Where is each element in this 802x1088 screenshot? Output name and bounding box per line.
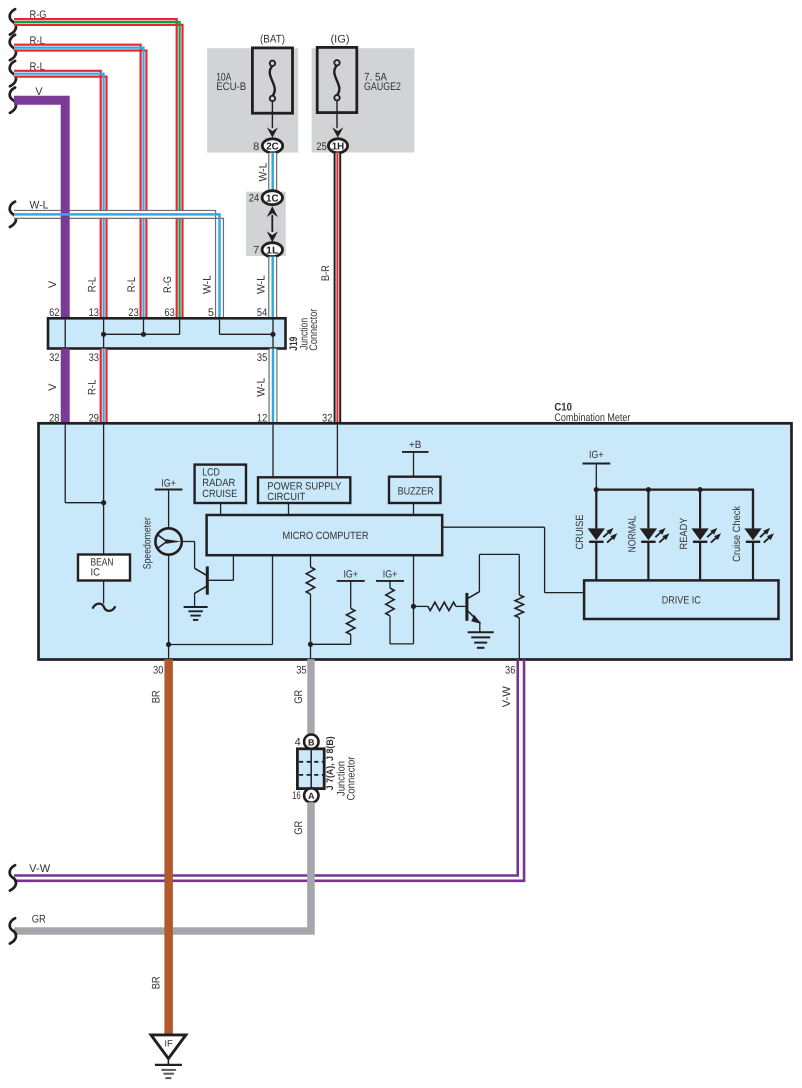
- wire R2 to pin35 node: [311, 635, 351, 645]
- wire W-L from J19 pin 35 to C10 pin 12: [269, 349, 277, 424]
- resistor R1: [306, 567, 314, 594]
- wire W-L white/blue horizontal from break, drops at x219.5 to J19 pin 5 (white body): [10, 200, 224, 319]
- svg-text:GR: GR: [32, 914, 46, 926]
- IG+ pullup B: [376, 569, 404, 588]
- svg-text:1L: 1L: [266, 245, 279, 256]
- POWER SUPPLY CIRCUIT box: [258, 477, 350, 503]
- svg-text:J 7(A), J 8(B): J 7(A), J 8(B): [325, 736, 336, 790]
- wire V from J19 pin 32 to C10 pin 28: [61, 349, 70, 424]
- wire R5 to pin 36: [518, 618, 520, 658]
- svg-text:R-L: R-L: [86, 277, 98, 293]
- BUZZER box: [389, 477, 441, 503]
- svg-text:R-L: R-L: [86, 379, 98, 395]
- wire Q2 collector to resistor R5 top: [479, 553, 519, 555]
- svg-text:IG+: IG+: [343, 569, 358, 581]
- wire fuse output to connector 2C with arrow: [267, 101, 278, 137]
- label C10 Combination Meter: [554, 401, 630, 424]
- wire LCD box to micro computer: [220, 503, 222, 515]
- transistor Q1 (speedometer driver): [182, 542, 233, 608]
- ground IF symbol: [151, 1035, 186, 1065]
- wire labels rotated above J19: V R-L R-L R-G W-L W-L: [47, 275, 268, 294]
- svg-text:2C: 2C: [266, 141, 279, 152]
- wire GR gray from pin 35 to junction connector B: [307, 659, 314, 735]
- label GR horizontal: [32, 914, 46, 926]
- J19 internal wire V pass-through: [64, 320, 66, 348]
- svg-text:7: 7: [253, 245, 259, 257]
- C10 pin numbers below box: 30 35 36: [153, 664, 515, 676]
- svg-text:(BAT): (BAT): [260, 34, 285, 46]
- svg-text:W-L: W-L: [30, 200, 49, 212]
- junction connector J7(A)/J8(B) box: [297, 749, 324, 789]
- svg-text:GR: GR: [293, 821, 305, 835]
- wire labels rotated below J19: V R-L W-L: [47, 378, 268, 397]
- svg-text:33: 33: [89, 352, 99, 364]
- J19 internal bus group 2 (pins 5,54 to 35): [220, 320, 276, 348]
- label V-W rotated: [501, 686, 513, 708]
- wire pin30 node to micro computer: [169, 555, 273, 645]
- J19 pin numbers below: 32 33 35: [49, 352, 267, 364]
- label W-L rotated beside wire: [257, 163, 269, 182]
- svg-text:CRUISE: CRUISE: [202, 488, 237, 500]
- label BR rotated upper: [151, 690, 163, 703]
- fuse rating label 7.5A GAUGE2: [364, 72, 401, 93]
- label GR rotated upper: [293, 690, 305, 704]
- wire B-R from 1H to C10 pin 32: [335, 153, 341, 424]
- node pin29 internal wire R-L down to BEAN IC: [101, 425, 106, 555]
- svg-text:8: 8: [253, 141, 259, 153]
- wire buzzer to micro computer: [413, 503, 415, 515]
- J19 internal bus group 1 (pins 13,23,63 to 33): [101, 320, 180, 348]
- LED supply bus with junction dots: [594, 487, 753, 528]
- connector oval 1H: [328, 139, 347, 153]
- svg-text:16: 16: [292, 790, 301, 802]
- J19 pin numbers above: 62 13 23 63 5 54: [49, 307, 267, 319]
- wire W-L from 1L to J19 pin 54: [269, 257, 277, 319]
- IG+ supply for LED cluster: [583, 449, 611, 490]
- LCD RADAR CRUISE box: [195, 465, 246, 503]
- BEAN IC box: [78, 555, 130, 581]
- LED D2 NORMAL: [640, 490, 670, 581]
- transistor Q2: [467, 554, 481, 632]
- svg-text:(IG): (IG): [331, 34, 350, 46]
- LED D1 CRUISE: [588, 490, 618, 581]
- svg-text:R-L: R-L: [126, 277, 138, 293]
- fuse F2 7.5A GAUGE2 symbol: [317, 47, 357, 112]
- ground under Q2: [468, 632, 494, 648]
- pin 25 label: [316, 141, 326, 153]
- svg-text:Speedometer: Speedometer: [141, 517, 153, 569]
- wire R3 to base node of Q2: [390, 616, 414, 644]
- fuse F1 10A ECU-B symbol: [252, 48, 292, 113]
- svg-text:A: A: [308, 791, 315, 801]
- label READY rotated: [678, 518, 690, 550]
- break symbol V-W at left edge: [10, 865, 16, 890]
- label J 7(A), J 8(B) Junction Connector rotated: [325, 736, 358, 800]
- svg-text:35: 35: [257, 352, 267, 364]
- svg-text:1H: 1H: [332, 141, 345, 152]
- arrows between 1C and 1L: [267, 206, 278, 242]
- C10 combination meter box: [39, 423, 792, 659]
- svg-text:V-W: V-W: [29, 863, 51, 875]
- wire V-W double purple from pin 36 down and left to break: [14, 659, 524, 881]
- svg-text:B-R: B-R: [320, 265, 332, 281]
- wire W-L blue stripe on top: [14, 214, 220, 318]
- IG+ pullup A: [337, 569, 365, 609]
- break symbol GR at left edge: [10, 918, 16, 943]
- svg-text:35: 35: [296, 664, 306, 676]
- wire W-L from 2C to 1C: [269, 153, 277, 191]
- ground hatching under IF: [155, 1065, 182, 1078]
- wire micro computer output to Q2 base node: [411, 555, 416, 644]
- svg-text:W-L: W-L: [256, 378, 268, 397]
- label B-R rotated: [320, 265, 332, 281]
- label Speedometer rotated: [141, 517, 153, 569]
- svg-text:4: 4: [295, 736, 301, 748]
- DRIVE IC box: [584, 580, 778, 619]
- wire R1 to pin 35 node: [308, 594, 313, 658]
- svg-text:IG+: IG+: [161, 477, 176, 489]
- label (IG): [331, 34, 350, 46]
- wire GR from connector A down and left to break: [14, 802, 311, 931]
- wire R-G horizontal from break, drops at x179.6 to J19 pin 63: [10, 9, 183, 318]
- wire V thick violet horizontal from break, drops at x65.2 to J19 pin 62: [10, 86, 66, 318]
- AC squiggle symbol: [93, 604, 116, 611]
- junction connector J7/J8 circle A with pin 16: [292, 788, 318, 802]
- junction connector J19 box: [48, 318, 286, 348]
- fuse block background (BAT) gray box: [207, 48, 298, 152]
- junction connector J7/J8 circle B with pin 4: [295, 735, 319, 749]
- resistor R2 (IG+ pullup A): [347, 608, 355, 634]
- connector oval 1L: [262, 243, 282, 257]
- label NORMAL rotated: [626, 515, 638, 552]
- MICRO COMPUTER box: [207, 515, 443, 555]
- resistor R3 (IG+ pullup B): [386, 588, 394, 616]
- C10 pin numbers above box: 28 29 12 32: [49, 412, 332, 424]
- svg-text:IG+: IG+: [383, 569, 398, 581]
- svg-text:V: V: [47, 280, 59, 288]
- svg-text:R-G: R-G: [162, 276, 174, 293]
- svg-text:GR: GR: [293, 690, 305, 704]
- svg-text:B: B: [308, 737, 315, 747]
- fuse block background (IG) gray box: [312, 48, 415, 152]
- resistor R4 (Q2 base): [414, 602, 466, 610]
- connector oval 2C: [262, 139, 282, 153]
- pin 8 label: [253, 141, 259, 153]
- svg-text:IF: IF: [164, 1038, 173, 1048]
- speedometer symbol circle with needle: [155, 528, 181, 554]
- svg-text:W-L: W-L: [202, 275, 214, 294]
- svg-text:BR: BR: [151, 976, 163, 989]
- svg-text:W-L: W-L: [256, 275, 268, 294]
- svg-text:DRIVE IC: DRIVE IC: [662, 595, 701, 607]
- label J19 Junction Connector rotated: [288, 308, 320, 350]
- +B supply for buzzer: [402, 439, 429, 477]
- svg-text:IC: IC: [91, 567, 101, 579]
- wire BEAN IC to AC squiggle: [103, 581, 105, 604]
- wire speedometer down to pin 30 node: [166, 555, 171, 658]
- svg-text:V: V: [47, 383, 59, 391]
- ground under Q1: [184, 607, 208, 620]
- wire BR thick brown from pin 30 to ground (drawn over crossings): [164, 659, 173, 1034]
- wire fuse output to connector 1H with arrow: [332, 101, 343, 138]
- label V-W horizontal: [29, 863, 51, 875]
- svg-text:READY: READY: [678, 518, 690, 550]
- svg-text:25: 25: [316, 141, 326, 153]
- svg-text:IG+: IG+: [589, 449, 604, 461]
- svg-text:36: 36: [505, 664, 515, 676]
- svg-text:32: 32: [49, 352, 59, 364]
- svg-text:BR: BR: [151, 690, 163, 703]
- pin 24 label: [249, 193, 259, 205]
- wire R-L horizontal from break, drops at x103.6 to J19 pin 13: [10, 61, 107, 318]
- connector background gray box for 1C/1L: [246, 192, 286, 256]
- svg-text:+B: +B: [409, 439, 422, 451]
- wire R-L from J19 pin 33 to C10 pin 29: [101, 349, 107, 424]
- label CRUISE rotated: [574, 515, 586, 550]
- svg-text:BUZZER: BUZZER: [398, 485, 434, 497]
- label GR rotated lower: [293, 821, 305, 835]
- LED D3 READY: [691, 490, 721, 581]
- svg-text:NORMAL: NORMAL: [626, 515, 638, 552]
- node pin28 internal wire V joining pin29 net: [65, 425, 103, 503]
- node pin12 internal wire to power supply circuit: [272, 425, 274, 478]
- svg-text:MICRO COMPUTER: MICRO COMPUTER: [283, 530, 369, 542]
- wire power supply to micro computer: [288, 503, 290, 515]
- svg-text:ECU-B: ECU-B: [216, 81, 246, 93]
- wire R5 column upper segment: [518, 554, 520, 595]
- IG+ supply for speedometer: [155, 477, 183, 528]
- resistor R5: [515, 595, 523, 618]
- label Cruise Check rotated: [731, 505, 743, 562]
- svg-text:CRUISE: CRUISE: [574, 515, 586, 550]
- svg-text:Connector: Connector: [308, 308, 320, 350]
- LED D4 Cruise Check: [744, 490, 774, 581]
- svg-text:W-L: W-L: [257, 163, 269, 182]
- wire R-L horizontal from break, drops at x143.5 to J19 pin 23: [10, 35, 147, 319]
- wire micro computer to drive IC: [442, 527, 584, 592]
- svg-text:24: 24: [249, 193, 259, 205]
- svg-text:CIRCUIT: CIRCUIT: [267, 491, 306, 503]
- wire micro computer down to resistor R1: [310, 555, 312, 567]
- pin 7 label: [253, 245, 259, 257]
- svg-text:1C: 1C: [266, 193, 279, 204]
- svg-text:V-W: V-W: [501, 686, 513, 708]
- label (BAT): [260, 34, 285, 46]
- connector oval 1C: [262, 191, 282, 205]
- fuse rating label 10A ECU-B: [216, 72, 246, 93]
- label BR rotated lower: [151, 976, 163, 989]
- svg-text:Cruise Check: Cruise Check: [731, 505, 743, 562]
- svg-text:30: 30: [153, 664, 163, 676]
- svg-text:GAUGE2: GAUGE2: [364, 81, 401, 93]
- node pin32 internal wire to power supply circuit: [336, 425, 338, 478]
- svg-text:Connector: Connector: [345, 756, 357, 800]
